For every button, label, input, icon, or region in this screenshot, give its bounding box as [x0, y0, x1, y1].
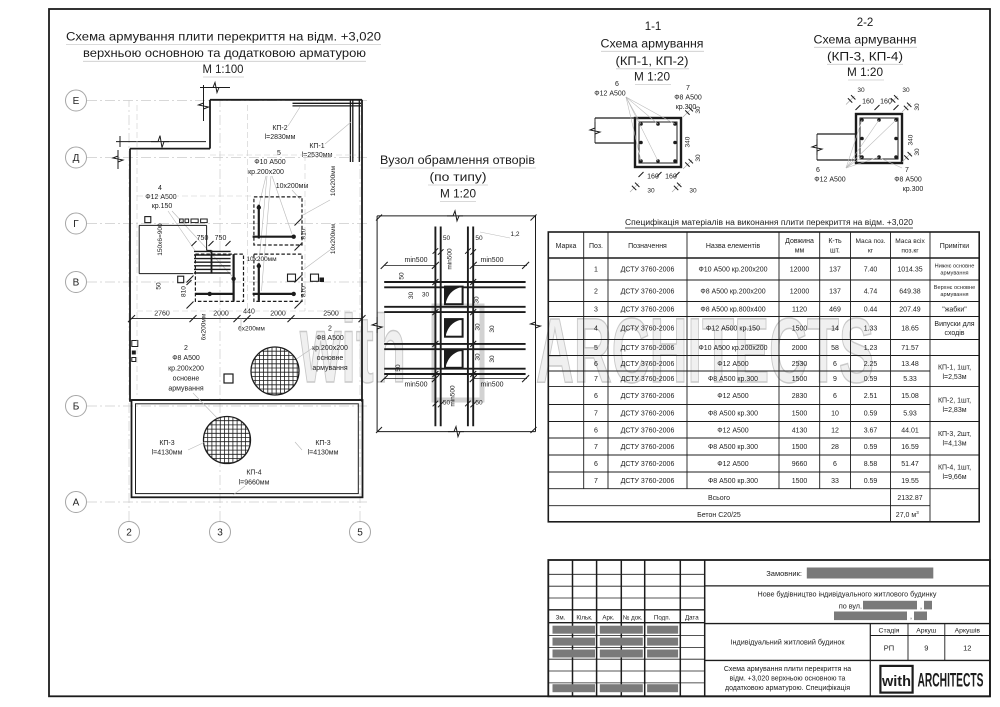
svg-text:Аркуш: Аркуш: [916, 628, 936, 635]
svg-text:,: ,: [910, 612, 912, 621]
svg-text:Маса поз.: Маса поз.: [855, 238, 885, 245]
svg-text:810: 810: [301, 228, 308, 239]
svg-text:0.59: 0.59: [864, 478, 878, 485]
svg-text:7: 7: [905, 167, 909, 174]
svg-text:340: 340: [908, 134, 915, 145]
svg-text:5: 5: [277, 150, 281, 157]
svg-text:КП-3: КП-3: [315, 440, 330, 447]
svg-text:9: 9: [924, 644, 928, 653]
svg-text:30: 30: [695, 106, 702, 114]
svg-text:Індивідуальний житловий будино: Індивідуальний житловий будинок: [731, 638, 846, 647]
svg-text:КП-2: КП-2: [272, 125, 287, 132]
svg-text:Випуски для: Випуски для: [934, 321, 974, 328]
svg-text:1500: 1500: [792, 411, 808, 418]
svg-text:min500: min500: [481, 382, 504, 389]
svg-text:Позначення: Позначення: [628, 243, 667, 250]
svg-text:10х200мм: 10х200мм: [330, 223, 337, 254]
svg-text:810: 810: [181, 286, 188, 297]
svg-text:1.33: 1.33: [864, 326, 878, 333]
svg-text:137: 137: [829, 267, 841, 274]
svg-text:7: 7: [594, 376, 598, 383]
svg-text:ДСТУ 3760-2006: ДСТУ 3760-2006: [621, 376, 675, 383]
svg-text:30: 30: [408, 292, 415, 300]
svg-text:6: 6: [594, 427, 598, 434]
svg-text:340: 340: [685, 136, 692, 147]
svg-text:КП-4, 1шт,: КП-4, 1шт,: [938, 465, 971, 472]
svg-text:9: 9: [833, 376, 837, 383]
svg-text:Схема армування: Схема армування: [601, 39, 704, 51]
svg-text:1500: 1500: [792, 444, 808, 451]
svg-text:5: 5: [594, 345, 598, 352]
svg-text:кр.200х200: кр.200х200: [248, 169, 284, 176]
svg-text:12: 12: [963, 644, 971, 653]
svg-text:Назва елементів: Назва елементів: [706, 242, 761, 250]
svg-text:2000: 2000: [213, 311, 229, 318]
svg-text:51.47: 51.47: [901, 461, 919, 468]
svg-text:l=9,66м: l=9,66м: [942, 474, 966, 481]
svg-text:Всього: Всього: [708, 495, 730, 502]
svg-text:Ф12 А500: Ф12 А500: [145, 194, 177, 201]
svg-text:50: 50: [475, 235, 483, 242]
svg-text:ДСТУ 3760-2006: ДСТУ 3760-2006: [621, 393, 675, 400]
svg-text:К-ть: К-ть: [828, 238, 842, 245]
svg-text:6: 6: [833, 393, 837, 400]
svg-text:30: 30: [914, 103, 921, 111]
svg-text:Ф8 А500: Ф8 А500: [316, 335, 344, 342]
svg-text:Е: Е: [73, 96, 80, 107]
svg-text:мм: мм: [795, 248, 805, 255]
svg-text:Ф12 А500: Ф12 А500: [594, 91, 626, 98]
svg-text:В: В: [73, 278, 80, 289]
svg-text:7: 7: [686, 85, 690, 92]
svg-text:min500: min500: [405, 382, 428, 389]
svg-text:l=2,53м: l=2,53м: [942, 374, 966, 381]
svg-text:2830: 2830: [792, 393, 808, 400]
svg-text:min500: min500: [447, 248, 454, 270]
svg-text:469: 469: [829, 307, 841, 314]
svg-text:16.59: 16.59: [901, 444, 919, 451]
svg-text:l=2,83м: l=2,83м: [942, 407, 966, 414]
svg-text:50: 50: [399, 272, 406, 280]
svg-text:30: 30: [914, 148, 921, 156]
svg-text:13.48: 13.48: [901, 361, 919, 368]
svg-text:19.55: 19.55: [901, 478, 919, 485]
svg-text:750: 750: [197, 235, 209, 242]
svg-text:min500: min500: [405, 257, 428, 264]
svg-text:6х200мм: 6х200мм: [201, 313, 208, 340]
svg-text:810: 810: [301, 286, 308, 297]
svg-text:9660: 9660: [792, 461, 808, 468]
svg-text:сходів: сходів: [944, 329, 964, 337]
svg-text:7: 7: [594, 444, 598, 451]
svg-text:ДСТУ 3760-2006: ДСТУ 3760-2006: [621, 411, 675, 418]
svg-text:Примітки: Примітки: [940, 242, 969, 250]
svg-text:Ф8 А500 кр.300: Ф8 А500 кр.300: [708, 376, 758, 383]
svg-text:1500: 1500: [792, 326, 808, 333]
svg-text:(по типу): (по типу): [430, 172, 487, 184]
svg-text:ДСТУ 3760-2006: ДСТУ 3760-2006: [621, 461, 675, 468]
svg-text:КП-3, 2шт,: КП-3, 2шт,: [938, 431, 971, 438]
svg-text:30: 30: [695, 154, 702, 162]
svg-text:КП-3: КП-3: [159, 440, 174, 447]
svg-text:Ф8 А500 кр.800х400: Ф8 А500 кр.800х400: [700, 307, 765, 314]
svg-text:3.67: 3.67: [864, 427, 878, 434]
svg-text:6: 6: [816, 167, 820, 174]
svg-text:Поз.: Поз.: [589, 243, 603, 250]
svg-text:Довжина: Довжина: [785, 238, 814, 245]
svg-text:l=4130мм: l=4130мм: [308, 450, 339, 457]
svg-text:6: 6: [833, 461, 837, 468]
svg-text:Специфікація матеріалів на вик: Специфікація матеріалів на виконання пли…: [625, 218, 914, 227]
svg-text:6х200мм: 6х200мм: [238, 326, 265, 333]
svg-text:Ф8 А500: Ф8 А500: [894, 177, 922, 184]
svg-text:4.74: 4.74: [864, 288, 878, 295]
svg-text:"жабки": "жабки": [942, 306, 967, 314]
svg-text:71.57: 71.57: [901, 345, 919, 352]
svg-text:відм. +3,020 верхньою основною: відм. +3,020 верхньою основною та: [730, 675, 846, 683]
svg-text:33: 33: [831, 478, 839, 485]
svg-text:50: 50: [155, 282, 162, 290]
svg-text:6: 6: [594, 393, 598, 400]
svg-text:Марка: Марка: [556, 243, 577, 250]
svg-text:додатковою арматурою. Специфік: додатковою арматурою. Специфікація: [725, 684, 850, 692]
svg-text:30: 30: [647, 188, 655, 195]
svg-text:ДСТУ 3760-2006: ДСТУ 3760-2006: [621, 288, 675, 295]
svg-text:160: 160: [862, 99, 874, 106]
svg-text:3: 3: [217, 528, 223, 539]
svg-text:(КП-1, КП-2): (КП-1, КП-2): [616, 56, 689, 68]
svg-text:2000: 2000: [270, 311, 286, 318]
svg-text:30: 30: [489, 325, 496, 333]
svg-text:М 1:20: М 1:20: [634, 72, 670, 84]
svg-text:5.33: 5.33: [903, 376, 917, 383]
svg-text:№ док.: № док.: [623, 614, 643, 621]
svg-text:8.58: 8.58: [864, 461, 878, 468]
svg-text:12: 12: [831, 427, 839, 434]
svg-text:15.08: 15.08: [901, 393, 919, 400]
svg-text:5.93: 5.93: [903, 411, 917, 418]
svg-text:Арк.: Арк.: [602, 614, 614, 621]
svg-text:Ф12 А500: Ф12 А500: [717, 393, 749, 400]
svg-text:ДСТУ 3760-2006: ДСТУ 3760-2006: [621, 427, 675, 434]
svg-text:ДСТУ 3760-2006: ДСТУ 3760-2006: [621, 444, 675, 451]
svg-text:6: 6: [615, 81, 619, 88]
svg-text:min500: min500: [481, 257, 504, 264]
svg-text:кр.200х200: кр.200х200: [168, 366, 204, 373]
svg-text:0.44: 0.44: [864, 307, 878, 314]
svg-text:основне: основне: [317, 355, 344, 362]
svg-text:Д: Д: [73, 153, 80, 164]
svg-text:18.65: 18.65: [901, 326, 919, 333]
svg-text:3: 3: [916, 510, 919, 515]
svg-text:1,2: 1,2: [510, 231, 519, 238]
svg-text:27,0 м: 27,0 м: [896, 512, 917, 519]
svg-text:58: 58: [831, 345, 839, 352]
svg-text:137: 137: [829, 288, 841, 295]
svg-text:Нижнє основне: Нижнє основне: [935, 264, 975, 270]
svg-text:Схема армування плити перекрит: Схема армування плити перекриття на відм…: [66, 30, 381, 44]
svg-text:кр.300: кр.300: [676, 104, 697, 111]
svg-text:поз.кг: поз.кг: [901, 248, 919, 255]
svg-text:7.40: 7.40: [864, 267, 878, 274]
svg-text:10х200мм: 10х200мм: [246, 256, 277, 263]
svg-text:Дата: Дата: [685, 614, 699, 621]
svg-text:7: 7: [594, 478, 598, 485]
svg-text:Ф10 А500 кр.200х200: Ф10 А500 кр.200х200: [698, 345, 767, 352]
svg-text:440: 440: [243, 309, 255, 316]
svg-text:кр.300: кр.300: [903, 186, 924, 193]
svg-text:l=4130мм: l=4130мм: [152, 450, 183, 457]
svg-text:1500: 1500: [792, 478, 808, 485]
svg-text:Ф8 А500 кр.300: Ф8 А500 кр.300: [708, 411, 758, 418]
svg-text:армування: армування: [312, 365, 347, 372]
svg-text:шт.: шт.: [830, 248, 840, 255]
svg-text:Ф10 А500: Ф10 А500: [254, 159, 286, 166]
svg-text:Вузол обрамлення отворів: Вузол обрамлення отворів: [380, 155, 535, 167]
svg-text:2132.87: 2132.87: [897, 495, 922, 502]
svg-text:армування: армування: [940, 292, 968, 298]
svg-text:30: 30: [475, 323, 482, 331]
svg-text:Г: Г: [73, 219, 79, 230]
svg-text:30: 30: [474, 296, 481, 304]
svg-text:50: 50: [395, 364, 402, 372]
svg-text:Маса всіх: Маса всіх: [895, 237, 925, 245]
svg-text:Ф10 А500 кр.200х200: Ф10 А500 кр.200х200: [698, 267, 767, 274]
svg-text:2: 2: [126, 528, 132, 539]
svg-text:2000: 2000: [792, 345, 808, 352]
svg-text:КП-2, 1шт,: КП-2, 1шт,: [938, 398, 971, 405]
svg-text:Ф8 А500 кр.300: Ф8 А500 кр.300: [708, 444, 758, 451]
svg-text:160: 160: [880, 99, 892, 106]
svg-text:ДСТУ 3760-2006: ДСТУ 3760-2006: [621, 361, 675, 368]
svg-text:2500: 2500: [323, 311, 339, 318]
svg-text:10х200мм: 10х200мм: [276, 183, 309, 190]
svg-text:1: 1: [594, 267, 598, 274]
svg-text:28: 28: [831, 444, 839, 451]
svg-text:Ф12 А500: Ф12 А500: [814, 177, 846, 184]
svg-text:ДСТУ 3760-2006: ДСТУ 3760-2006: [621, 478, 675, 485]
svg-text:44.01: 44.01: [901, 427, 919, 434]
svg-text:КП-4: КП-4: [246, 470, 261, 477]
svg-text:армування: армування: [940, 271, 968, 277]
svg-text:1120: 1120: [792, 307, 807, 314]
svg-text:150х6=900: 150х6=900: [157, 223, 164, 256]
svg-text:14: 14: [831, 326, 839, 333]
svg-text:min500: min500: [450, 385, 457, 407]
svg-text:6: 6: [594, 361, 598, 368]
svg-text:Схема армування: Схема армування: [814, 35, 917, 47]
svg-text:4: 4: [158, 185, 162, 192]
svg-text:Замовник:: Замовник:: [766, 569, 802, 578]
svg-text:0.59: 0.59: [864, 411, 878, 418]
svg-text:М 1:20: М 1:20: [847, 67, 883, 79]
svg-text:Бетон С20/25: Бетон С20/25: [697, 512, 741, 519]
svg-text:2760: 2760: [154, 311, 170, 318]
svg-text:30: 30: [475, 353, 482, 361]
svg-text:2: 2: [594, 288, 598, 295]
svg-text:Нове будівництво індивідуально: Нове будівництво індивідуального житлово…: [758, 590, 937, 599]
svg-text:основне: основне: [173, 376, 200, 383]
svg-text:А: А: [73, 498, 80, 509]
svg-text:Кільк.: Кільк.: [576, 614, 593, 621]
svg-text:Ф8 А500 кр.200х200: Ф8 А500 кр.200х200: [700, 288, 765, 295]
svg-text:Ф12 А500: Ф12 А500: [717, 427, 749, 434]
svg-text:Верхнє основне: Верхнє основне: [934, 285, 975, 291]
svg-text:Ф8 А500: Ф8 А500: [674, 95, 702, 102]
svg-text:1.23: 1.23: [864, 345, 878, 352]
svg-text:l=2530мм: l=2530мм: [302, 152, 333, 159]
svg-text:649.38: 649.38: [899, 288, 921, 295]
svg-text:Подп.: Подп.: [654, 614, 671, 621]
svg-text:30: 30: [422, 292, 430, 299]
svg-text:армування: армування: [168, 386, 203, 393]
svg-text:Стадія: Стадія: [879, 627, 900, 635]
svg-text:КП-1: КП-1: [309, 143, 324, 150]
svg-text:12000: 12000: [790, 267, 810, 274]
svg-text:0.59: 0.59: [864, 376, 878, 383]
svg-text:10х200мм: 10х200мм: [330, 165, 337, 196]
svg-text:Аркушів: Аркушів: [955, 627, 981, 635]
svg-text:with: with: [881, 674, 911, 690]
svg-text:30: 30: [689, 188, 697, 195]
svg-text:ДСТУ 3760-2006: ДСТУ 3760-2006: [621, 267, 675, 274]
svg-text:кр.150: кр.150: [152, 203, 173, 210]
svg-text:Схема армування плити перекрит: Схема армування плити перекриття на: [724, 666, 851, 673]
svg-text:1500: 1500: [792, 376, 808, 383]
svg-text:750: 750: [215, 235, 227, 242]
svg-text:l=9660мм: l=9660мм: [239, 480, 270, 487]
svg-text:2.25: 2.25: [864, 361, 878, 368]
svg-text:4: 4: [594, 326, 598, 333]
svg-text:1014.35: 1014.35: [897, 267, 922, 274]
svg-text:М 1:100: М 1:100: [203, 62, 244, 76]
svg-text:Зм.: Зм.: [556, 614, 566, 621]
svg-text:верхньою основною та додатково: верхньою основною та додатковою арматуро…: [83, 46, 366, 60]
svg-text:ДСТУ 3760-2006: ДСТУ 3760-2006: [621, 326, 675, 333]
svg-text:РП: РП: [884, 644, 894, 653]
svg-text:2: 2: [184, 345, 188, 352]
svg-text:30: 30: [489, 355, 496, 363]
svg-text:КП-1, 1шт,: КП-1, 1шт,: [938, 365, 971, 372]
svg-text:Ф12 А500 кр.150: Ф12 А500 кр.150: [706, 326, 760, 333]
svg-text:М 1:20: М 1:20: [440, 189, 476, 201]
svg-text:50: 50: [475, 400, 483, 407]
svg-text:2: 2: [328, 326, 332, 333]
svg-text:2-2: 2-2: [857, 17, 874, 29]
svg-text:6: 6: [833, 361, 837, 368]
svg-text:Ф12 А500: Ф12 А500: [717, 361, 749, 368]
svg-text:кр.200х200: кр.200х200: [312, 345, 348, 352]
svg-text:3: 3: [594, 307, 598, 314]
svg-text:5: 5: [357, 528, 363, 539]
svg-text:кг: кг: [868, 248, 874, 255]
svg-text:2530: 2530: [792, 361, 808, 368]
svg-text:,: ,: [920, 602, 922, 611]
svg-text:Ф8 А500 кр.300: Ф8 А500 кр.300: [708, 478, 758, 485]
svg-text:ARCHITECTS: ARCHITECTS: [918, 671, 984, 692]
svg-text:2.51: 2.51: [864, 393, 878, 400]
svg-text:ДСТУ 3760-2006: ДСТУ 3760-2006: [621, 307, 675, 314]
svg-text:7: 7: [594, 411, 598, 418]
svg-text:Ф8 А500: Ф8 А500: [172, 355, 200, 362]
svg-text:l=4,13м: l=4,13м: [942, 441, 966, 448]
svg-text:50: 50: [443, 235, 451, 242]
svg-text:4130: 4130: [792, 427, 808, 434]
svg-text:1-1: 1-1: [645, 21, 662, 33]
svg-text:l=2830мм: l=2830мм: [265, 134, 296, 141]
svg-text:0.59: 0.59: [864, 444, 878, 451]
svg-text:Ф12 А500: Ф12 А500: [717, 461, 749, 468]
svg-text:Б: Б: [73, 402, 80, 413]
svg-text:по вул.: по вул.: [839, 602, 862, 611]
svg-text:12000: 12000: [790, 288, 810, 295]
svg-text:207.49: 207.49: [899, 307, 921, 314]
svg-text:10: 10: [831, 411, 839, 418]
svg-text:(КП-3, КП-4): (КП-3, КП-4): [827, 52, 903, 64]
svg-text:30: 30: [902, 87, 910, 94]
svg-text:ДСТУ 3760-2006: ДСТУ 3760-2006: [621, 345, 675, 352]
svg-text:30: 30: [857, 87, 865, 94]
svg-text:6: 6: [594, 461, 598, 468]
